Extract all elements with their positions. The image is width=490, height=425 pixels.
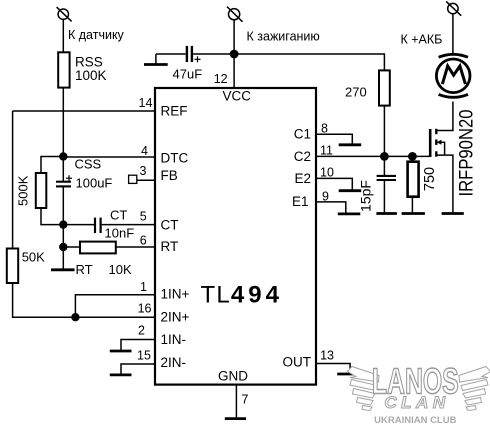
ground for 47uF cap [155, 54, 157, 64]
ground bar Q1 source [442, 212, 464, 215]
svg-text:2: 2 [138, 324, 145, 338]
resistor 750 [408, 162, 419, 197]
resistor 270 [379, 70, 390, 105]
wire pin 11 C2 to gate node [316, 155, 429, 157]
wire pin 15 to ground [121, 364, 155, 375]
Q1 source tick [435, 151, 437, 156]
IC pin name labels [161, 89, 312, 384]
wire RSS bottom to node A [62, 88, 64, 157]
svg-text:E2: E2 [294, 171, 311, 186]
resistor 500K [36, 173, 47, 208]
node F junction dot [380, 152, 389, 161]
wire node D up to pin 1 [75, 295, 155, 318]
svg-text:FB: FB [161, 168, 178, 183]
svg-text:4: 4 [141, 144, 148, 158]
svg-text:750: 750 [422, 167, 438, 191]
svg-text:5: 5 [140, 210, 147, 224]
node G junction dot (750/gate) [408, 152, 417, 161]
wire node E to VCC pin 12 [233, 54, 235, 88]
logo left wing [348, 367, 380, 411]
svg-text:C2: C2 [294, 149, 311, 164]
svg-text:2IN-: 2IN- [161, 355, 187, 370]
svg-text:К датчику: К датчику [68, 28, 125, 42]
node D junction dot on pin16 wire [71, 313, 79, 321]
pin 3 FB open square [129, 175, 137, 183]
wire 47uF right plate to node E [193, 53, 234, 55]
svg-text:К зажиганию: К зажиганию [247, 30, 320, 44]
Q1 drain tick [435, 129, 437, 134]
svg-text:10nF: 10nF [105, 226, 135, 241]
svg-text:10K: 10K [109, 262, 132, 277]
wire pin 9 E1 to ground [316, 202, 346, 214]
left rail wire 50K to pin16 row [13, 283, 155, 317]
capacitor CSS 100uF plates [56, 182, 71, 187]
wire node A to pin 4 DTC [63, 156, 155, 158]
wire 500K bottom to node B [41, 208, 63, 225]
resistor RSS 100K [58, 52, 69, 87]
svg-text:270: 270 [345, 85, 367, 100]
wire node E to 270 resistor [234, 54, 384, 70]
ground bar pin 2 [110, 350, 132, 353]
ground bar pin 8 [339, 143, 362, 146]
svg-text:VCC: VCC [223, 89, 252, 104]
Q1 drain wire [438, 102, 453, 131]
svg-text:500K: 500K [16, 175, 31, 206]
svg-text:C1: C1 [294, 127, 311, 142]
wire RT resistor to pin 6 [116, 246, 155, 248]
node E junction dot [230, 50, 239, 59]
svg-text:3: 3 [140, 164, 147, 178]
motor brush arc top [439, 54, 468, 57]
wire ground to 47uF left plate [156, 53, 186, 55]
wire CT cap to pin 5 [102, 224, 155, 226]
svg-text:8: 8 [321, 122, 328, 136]
transistor Q1 IRFP90N20 gate bar [429, 129, 432, 157]
ground bar 47uF [144, 63, 168, 66]
svg-text:16: 16 [138, 302, 152, 316]
svg-text:UKRAINIAN CLUB: UKRAINIAN CLUB [374, 415, 456, 425]
Q1 body arrow [437, 140, 442, 145]
svg-text:11: 11 [320, 144, 333, 158]
capacitor CT 10nF plates [95, 218, 101, 233]
motor brush arc bottom [439, 94, 468, 97]
terminal X3 (К +АКБ) [446, 1, 461, 15]
svg-text:E1: E1 [292, 194, 309, 209]
Q1 body to source wire [441, 142, 445, 155]
svg-text:RT: RT [161, 239, 179, 254]
wire node G to 750 resistor [411, 156, 413, 161]
wire node B to CT cap [63, 224, 94, 226]
svg-text:IRFP90N20: IRFP90N20 [457, 110, 478, 197]
svg-text:RT: RT [76, 262, 93, 277]
wire pin 8 C1 to ground [316, 134, 352, 144]
terminal X2 (К зажиганию) [227, 7, 243, 22]
logo right wing [459, 367, 490, 411]
svg-text:14: 14 [139, 96, 153, 110]
logo LANOS CLAN watermark [348, 361, 490, 425]
ground bar pin 13 [337, 373, 360, 376]
wire X1 to RSS [62, 19, 64, 52]
svg-text:CSS: CSS [75, 157, 102, 172]
wire pin 7 GND [235, 385, 237, 419]
node A junction dot [59, 152, 67, 160]
svg-text:10: 10 [320, 166, 334, 180]
wire CSS bottom plate to node B [62, 186, 64, 224]
capacitor C1 47uF plates [187, 46, 192, 62]
wire node B to node C [62, 225, 64, 247]
ground bar pin 15 [110, 373, 132, 376]
wire node A to CSS top plate [62, 157, 64, 182]
wire X3 to motor [452, 14, 454, 54]
svg-text:2IN+: 2IN+ [161, 310, 190, 325]
svg-text:7: 7 [242, 393, 249, 407]
Q1 body tick [435, 140, 437, 145]
ground bar 15pF [376, 212, 397, 215]
wire node A to 500K top [41, 157, 63, 174]
capacitor 15pF plates [377, 176, 396, 180]
svg-text:CLAN: CLAN [384, 393, 449, 412]
wire pin 13 OUT to ground [316, 364, 350, 374]
svg-text:OUT: OUT [283, 355, 312, 370]
resistor 50K [7, 249, 18, 284]
wire X2 to node E [233, 20, 235, 54]
terminal X1 (К датчику) [57, 7, 72, 21]
svg-text:12: 12 [214, 72, 228, 86]
wire REF pin 14 to left rail [13, 110, 155, 112]
svg-text:50K: 50K [22, 250, 45, 265]
resistor RT 10K [80, 242, 116, 254]
ground bar 750 [402, 212, 425, 215]
ground bar pin 10 [339, 189, 362, 192]
svg-text:100K: 100K [75, 68, 107, 83]
svg-text:GND: GND [218, 369, 248, 384]
svg-text:DTC: DTC [161, 151, 189, 166]
wire 270 bottom to node F [383, 106, 385, 157]
wire node C to RT resistor [63, 246, 80, 248]
wire FB square to pin 3 [137, 179, 155, 181]
motor M letter [442, 66, 465, 84]
svg-text:1IN+: 1IN+ [161, 287, 190, 302]
wire 750 bottom to ground [411, 197, 413, 214]
svg-text:15pF: 15pF [358, 180, 374, 212]
wire node C to ground [62, 247, 64, 269]
Q1 source wire [438, 155, 453, 213]
IC U1 TL494 body [155, 88, 316, 385]
wire pin 2 to ground [121, 340, 155, 351]
svg-text:9: 9 [322, 190, 329, 204]
wire node F to 15pF cap [383, 156, 385, 176]
svg-text:100uF: 100uF [76, 176, 113, 191]
svg-text:1: 1 [140, 280, 147, 294]
ground bar pin 7 [225, 417, 246, 420]
ground bar pin 9 [338, 212, 361, 215]
svg-text:6: 6 [140, 234, 147, 248]
ground bar below node C [51, 268, 75, 271]
motor M1 circle [436, 59, 470, 93]
svg-text:CT: CT [110, 208, 127, 223]
svg-text:47uF: 47uF [173, 67, 203, 82]
svg-text:CT: CT [161, 218, 179, 233]
CSS plus sign [66, 175, 72, 181]
node C junction dot [59, 243, 67, 251]
wire pin 10 E2 to ground [316, 178, 352, 190]
wire 15pF to ground [383, 180, 385, 213]
svg-text:TL494: TL494 [201, 282, 283, 309]
svg-text:13: 13 [320, 348, 334, 362]
node B junction dot [59, 220, 67, 228]
svg-text:REF: REF [161, 104, 188, 119]
left rail wire down [12, 111, 14, 249]
47uF plus sign [195, 56, 201, 62]
svg-text:1IN-: 1IN- [161, 332, 187, 347]
svg-text:К +АКБ: К +АКБ [401, 33, 443, 47]
svg-text:15: 15 [137, 349, 151, 363]
